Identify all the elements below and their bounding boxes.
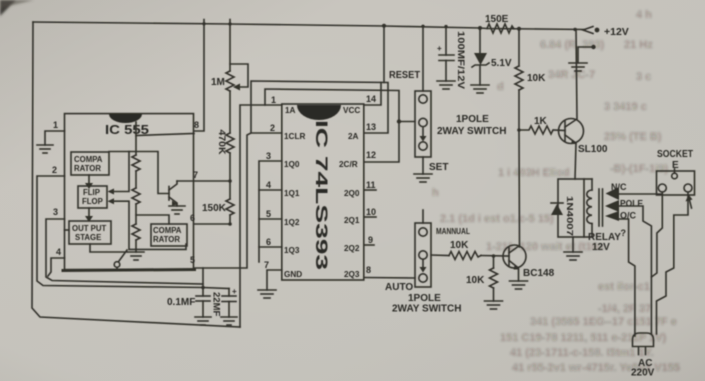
label AC 220V [631, 358, 655, 379]
svg-text:5: 5 [266, 209, 271, 219]
svg-text:AUTO: AUTO [385, 282, 413, 293]
ground (relay bottom) [564, 237, 582, 260]
wire: divider tap to comparator A and discharge base [109, 152, 169, 194]
svg-text:1Q0: 1Q0 [284, 160, 300, 169]
ground (0.1MF) [195, 317, 211, 325]
svg-text:41 r55-2v1 wr-4715r. Ye5u1 V15: 41 r55-2v1 wr-4715r. Ye5u1 V155 [512, 362, 680, 374]
ground (zener) [471, 85, 489, 93]
resistor 150K [226, 181, 234, 224]
svg-text:3 c: 3 c [636, 71, 651, 83]
output stage box [69, 221, 111, 244]
svg-text:9: 9 [368, 235, 373, 245]
svg-text:7: 7 [264, 260, 269, 270]
wire: reset node to switch pole [399, 121, 415, 123]
ground (393 pin7) [258, 290, 276, 298]
wire: pin5 node up the right side [203, 133, 251, 268]
svg-text:FLIP: FLIP [83, 188, 100, 197]
svg-text:E: E [672, 160, 679, 171]
svg-text:IC 74LS393: IC 74LS393 [312, 120, 330, 270]
svg-text:150K: 150K [202, 203, 227, 214]
capacitor 0.1MF [196, 288, 210, 318]
wire: outer left rail and bottom rail [32, 22, 240, 327]
svg-text:1A: 1A [285, 106, 296, 115]
svg-text:12: 12 [366, 150, 376, 160]
wire: +12V drop to bus A [383, 26, 385, 82]
svg-text:220V: 220V [631, 368, 655, 379]
svg-text:14: 14 [366, 94, 376, 104]
IC U1 555 outline [63, 114, 195, 271]
svg-text:2Q0: 2Q0 [344, 189, 360, 198]
svg-text:1M: 1M [211, 77, 225, 88]
wire: socket right pin down [657, 192, 689, 334]
svg-text:41 (23-1711-c-158. I5tm1 1Y.: 41 (23-1711-c-158. I5tm1 1Y. [510, 347, 654, 359]
svg-text:7: 7 [193, 170, 198, 180]
svg-text:d: d [497, 81, 504, 93]
svg-text:POLE: POLE [620, 199, 643, 210]
svg-text:1Q3: 1Q3 [284, 246, 300, 255]
svg-text:1: 1 [271, 95, 276, 105]
wire: pin 6 to 150K bottom [194, 223, 230, 225]
svg-text:3: 3 [53, 207, 58, 217]
arrow to socket right pin [686, 195, 693, 209]
svg-text:1: 1 [53, 120, 58, 130]
svg-text:VCC: VCC [343, 106, 360, 115]
wire: set contact to ground [422, 157, 424, 174]
svg-text:6.84 (R. 393): 6.84 (R. 393) [540, 39, 605, 51]
label 1POLE 2WAY SWITCH (lower) [392, 293, 461, 315]
svg-text:25% (TE B): 25% (TE B) [604, 131, 662, 143]
svg-text:100MF/12V: 100MF/12V [455, 31, 466, 90]
wire bus B: pin1 node up and over to reset node [265, 89, 399, 162]
svg-text:FLOP: FLOP [82, 197, 103, 206]
resistor 1M variable with arrow loop [226, 20, 248, 134]
pin labels inside 393 right [339, 106, 360, 279]
wire: flip flop to output stage arrow [85, 208, 93, 222]
contact O/C [605, 211, 637, 222]
flip flop box [78, 186, 107, 208]
zener diode 5.1V [472, 28, 489, 85]
ground (BC148 emitter) [510, 281, 528, 289]
contact pole arrow [605, 199, 643, 213]
svg-text:-B)-(1F-1i9): -B)-(1F-1i9) [610, 163, 668, 175]
relay coil [584, 179, 592, 237]
svg-text:6: 6 [190, 213, 195, 223]
svg-text:1POLE: 1POLE [456, 114, 489, 125]
svg-text:2Q1: 2Q1 [344, 216, 360, 225]
svg-text:12V: 12V [592, 242, 610, 253]
svg-text:1POLE: 1POLE [408, 293, 441, 304]
svg-text:2Q3: 2Q3 [344, 270, 360, 279]
svg-text:21 Hz: 21 Hz [624, 39, 653, 51]
svg-text:470K: 470K [216, 130, 227, 155]
wire bus A: pin2 up and over to pin13 [251, 81, 388, 133]
svg-text:4: 4 [56, 247, 61, 257]
svg-text:h: h [432, 187, 439, 199]
svg-text:N/C: N/C [611, 182, 627, 192]
diode 1N4007 [551, 203, 563, 215]
transistor Q1 SL100 [559, 29, 584, 179]
svg-text:+: + [232, 287, 237, 296]
label RELAY 12V [588, 232, 621, 253]
svg-text:6: 6 [266, 237, 271, 247]
pin labels inside 393 left [284, 106, 305, 279]
wire: pin 4 [48, 258, 65, 276]
svg-text:RESET: RESET [389, 70, 420, 81]
wire: 393 pin8 to AUTO contact [364, 277, 415, 280]
resistor 10K pull-up [515, 29, 523, 130]
pin number labels 393 right [366, 94, 376, 275]
switch S1 RESET/SET 1pole 2way [415, 91, 431, 157]
svg-text:+: + [437, 44, 442, 53]
socket box [657, 169, 695, 195]
svg-text:2: 2 [270, 123, 275, 133]
output switch contact inside 555 [90, 244, 127, 270]
svg-text:0.1MF: 0.1MF [167, 297, 195, 308]
svg-text:1CLR: 1CLR [284, 132, 305, 141]
resistor divider chain inside 555 [132, 122, 194, 252]
resistor 470K [226, 133, 234, 181]
comparator A box [71, 152, 109, 175]
svg-text:10K: 10K [527, 73, 546, 84]
wire: +12V top rail [33, 22, 585, 30]
svg-text:?: ? [621, 228, 627, 238]
wire: divider tap to comparator B top [136, 215, 169, 224]
resistor 10K (base to ground) [490, 254, 498, 301]
transistor (discharge) inside 555 [169, 181, 178, 206]
ground (555 pin 1) [37, 145, 53, 153]
wire: 393 pin6 stub [259, 246, 282, 248]
label +12V with arrow [583, 26, 629, 38]
svg-text:MANNUAL: MANNUAL [436, 226, 470, 236]
wire: O/C down to cord [619, 219, 635, 336]
svg-text:COMPA: COMPA [74, 155, 103, 164]
svg-text:2C/R: 2C/R [339, 160, 358, 169]
svg-text:5.1V: 5.1V [491, 58, 512, 69]
capacitor C 100MF/12V [437, 27, 454, 81]
svg-text:13: 13 [366, 122, 376, 132]
wire: comparator B output to flip flop arrow 2 [108, 198, 187, 249]
svg-text:8: 8 [366, 265, 371, 275]
relay RL1 box with diode compartment [558, 179, 584, 237]
svg-text:2WAY SWITCH: 2WAY SWITCH [437, 126, 506, 137]
comparator B box [151, 224, 187, 246]
transistor Q2 BC148 [503, 245, 526, 281]
wire: pin 1 to ground [45, 131, 65, 145]
svg-text:11: 11 [366, 180, 376, 190]
resistor 1K [519, 126, 565, 134]
svg-text:5: 5 [190, 255, 195, 265]
ground (22MF) [221, 317, 237, 325]
svg-text:4: 4 [266, 180, 271, 190]
svg-text:4 h: 4 h [636, 9, 652, 21]
svg-text:3: 3 [266, 151, 271, 161]
svg-text:10K: 10K [450, 240, 469, 251]
svg-text:1K: 1K [534, 116, 548, 127]
svg-text:22MF: 22MF [211, 292, 222, 316]
wire: 393 pin4 stub [259, 189, 282, 191]
svg-text:1Q1: 1Q1 [284, 189, 300, 198]
ground (divider) [128, 252, 144, 260]
wire: pin 5 to cap node [194, 268, 203, 288]
ground (100MF cap) [437, 81, 455, 89]
ground (discharge transistor) [169, 206, 185, 214]
contact N/C [606, 182, 628, 200]
wire: node to BC148 collector [518, 130, 521, 246]
svg-text:1Q2: 1Q2 [284, 218, 300, 227]
wire: 393 pin7 to ground [267, 270, 282, 290]
svg-text:8: 8 [194, 120, 199, 130]
svg-text:RATOR: RATOR [153, 235, 180, 244]
wire: +12V rail to reset switch top [422, 27, 424, 92]
node: reset junction dot [397, 119, 401, 123]
resistor 150E [487, 24, 514, 33]
svg-text:2.1 (1d i est o1.c-5 15): 2.1 (1d i est o1.c-5 15) [440, 213, 554, 225]
wire: comparator A to flip flop arrow [85, 175, 93, 189]
svg-text:2: 2 [52, 165, 57, 175]
svg-text:COMPA: COMPA [153, 226, 182, 235]
AC plug [633, 333, 654, 355]
svg-text:OUT PUT: OUT PUT [72, 224, 106, 233]
relay core lines [599, 189, 603, 226]
svg-text:GND: GND [284, 270, 302, 279]
svg-text:SET: SET [429, 162, 448, 173]
ground (SET) [414, 174, 432, 182]
capacitor 22MF [203, 288, 236, 318]
wire: 393 pin11 stub [364, 189, 376, 191]
wire: pin 2 down-left and to cap node [37, 176, 203, 288]
svg-text:10: 10 [366, 207, 376, 217]
svg-text:2Q2: 2Q2 [344, 244, 360, 253]
svg-text:1 i 403H Eliod: 1 i 403H Eliod [498, 167, 570, 179]
svg-text:SOCKET: SOCKET [657, 149, 693, 160]
svg-text:RATOR: RATOR [74, 164, 101, 173]
wire: pin 8 to +12V rail [194, 20, 204, 132]
ground (10K base) [485, 301, 503, 309]
wire: 393 pin10 stub [364, 216, 376, 218]
wire: tap to flip flop arrow 1 [108, 152, 130, 195]
node: rail junction ticks [201, 22, 577, 289]
svg-text:1N4007: 1N4007 [565, 196, 575, 236]
wire: output stage to pin3 edge [65, 229, 70, 231]
resistor 10K (manual line) [431, 252, 509, 260]
wire: pin 7 to chain [177, 180, 230, 182]
svg-text:34R JC-7: 34R JC-7 [548, 69, 595, 81]
svg-text:est ilor-c1: est ilor-c1 [598, 281, 650, 293]
ground (+12V reference) [569, 45, 596, 71]
svg-text:STAGE: STAGE [75, 233, 101, 242]
wire: 393 pin1 to bottom rail [240, 105, 282, 327]
wire: 393 pin5 stub [259, 218, 282, 220]
wire: pole down to cord [619, 206, 651, 334]
svg-text:2WAY SWITCH: 2WAY SWITCH [392, 304, 461, 315]
wire: pin 3 down-left and right [46, 219, 203, 284]
label SOCKET E [657, 149, 693, 171]
switch S2 MANUAL/AUTO 1pole 2way [415, 210, 431, 287]
svg-text:10K: 10K [466, 275, 485, 286]
svg-text:341 (3585 1EG--17 c151 7F e: 341 (3585 1EG--17 c151 7F e [530, 316, 677, 328]
svg-text:150E: 150E [485, 14, 509, 25]
label 1POLE 2WAY SWITCH (upper) [437, 114, 506, 137]
wire: 393 pin9 stub [364, 244, 374, 246]
IC U2 74LS393 outline [282, 104, 364, 280]
wire: pin14 VCC up to bus [364, 82, 381, 105]
svg-text:-1/4, 2F 37: -1/4, 2F 37 [598, 303, 651, 315]
svg-text:SL100: SL100 [578, 144, 608, 155]
pin number labels 393 left [264, 95, 276, 270]
wire: socket left pin down [651, 192, 662, 277]
svg-text:+12V: +12V [604, 26, 629, 38]
wire: N/C to socket left pin [619, 193, 662, 195]
svg-text:3 3419 c: 3 3419 c [604, 101, 647, 113]
svg-text:BC148: BC148 [523, 268, 555, 279]
svg-text:2A: 2A [348, 132, 359, 141]
wire: 393 pin3 stub [259, 161, 282, 262]
